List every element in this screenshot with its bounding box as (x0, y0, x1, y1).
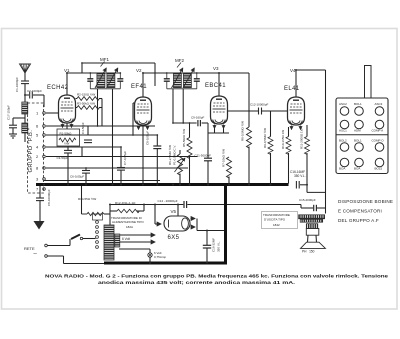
svg-text:C1-1000pF: C1-1000pF (15, 77, 19, 92)
svg-text:V5: V5 (171, 209, 177, 214)
svg-text:R2-150Ω ½W: R2-150Ω ½W (77, 93, 95, 97)
svg-text:C14 - 20000μF: C14 - 20000μF (158, 199, 178, 203)
svg-text:DISPOSIZIONE BOBINE: DISPOSIZIONE BOBINE (338, 199, 393, 204)
svg-text:EF41: EF41 (131, 84, 147, 90)
svg-text:BOL1: BOL1 (354, 139, 362, 143)
svg-text:6 Volt: 6 Volt (122, 237, 130, 241)
svg-text:C2-1000pF: C2-1000pF (27, 89, 42, 93)
svg-text:R3-50kΩ ½W: R3-50kΩ ½W (77, 102, 95, 106)
svg-text:350 V.L.: 350 V.L. (294, 174, 306, 178)
svg-text:R10-165Ω 1W: R10-165Ω 1W (281, 130, 285, 149)
svg-text:6X5: 6X5 (168, 235, 180, 241)
svg-text:C6-0,05μF: C6-0,05μF (70, 175, 84, 179)
svg-text:ASC1: ASC1 (339, 129, 347, 133)
svg-text:TRASFORMATORE: TRASFORMATORE (263, 213, 290, 217)
svg-text:R1-50kΩ: R1-50kΩ (60, 132, 73, 136)
svg-text:C11-5000pF: C11-5000pF (195, 154, 212, 158)
svg-text:C9-160pF: C9-160pF (191, 116, 205, 120)
svg-text:∼: ∼ (33, 251, 37, 257)
svg-text:D'USCITA TIPO: D'USCITA TIPO (264, 218, 286, 222)
svg-text:R12-40Ω+1-1Ω: R12-40Ω+1-1Ω (115, 201, 136, 205)
svg-text:E COMPENSATORI: E COMPENSATORI (338, 209, 382, 214)
svg-text:BOA: BOA (354, 167, 360, 171)
svg-text:V2: V2 (136, 68, 142, 73)
svg-text:COMP O: COMP O (372, 139, 385, 143)
svg-text:C16-32MF: C16-32MF (212, 238, 216, 252)
svg-text:C12-10000pF: C12-10000pF (250, 103, 269, 107)
svg-text:MF2: MF2 (175, 58, 184, 63)
svg-text:C8-10000pF: C8-10000pF (47, 189, 51, 206)
svg-text:C8-0,05μF: C8-0,05μF (146, 131, 150, 145)
svg-text:BOA: BOA (339, 167, 345, 171)
svg-text:ADM: ADM (354, 129, 361, 133)
svg-text:R5-50kΩ ½W: R5-50kΩ ½W (182, 129, 186, 147)
svg-text:ASC3: ASC3 (375, 102, 383, 106)
svg-text:GRUPPO "P.B.": GRUPPO "P.B." (28, 128, 34, 173)
svg-text:EL41: EL41 (284, 86, 300, 92)
svg-text:P1-0,5MΩ C.V.: P1-0,5MΩ C.V. (173, 145, 177, 165)
svg-text:EBC41: EBC41 (205, 83, 226, 89)
svg-text:anodica massima 435 volt; corr: anodica massima 435 volt; corrente anodi… (98, 280, 295, 286)
svg-text:COMP A: COMP A (372, 129, 384, 133)
svg-text:R14-55Ω ½W: R14-55Ω ½W (78, 197, 96, 201)
svg-text:V3: V3 (213, 66, 219, 71)
svg-text:BOL2: BOL2 (339, 139, 347, 143)
svg-text:½W: ½W (64, 142, 70, 146)
svg-text:R8-0,5MΩ ½W: R8-0,5MΩ ½W (241, 121, 245, 141)
svg-text:ECH42: ECH42 (47, 85, 69, 91)
svg-text:R9-0,5MΩ ½W: R9-0,5MΩ ½W (263, 128, 267, 148)
svg-text:V4: V4 (290, 68, 296, 73)
svg-text:NOVA RADIO - Mod. G 2 - Fu: NOVA RADIO - Mod. G 2 - Funziona con gru… (45, 274, 388, 280)
svg-text:C17-150pF: C17-150pF (7, 105, 11, 120)
svg-text:C3-50pF: C3-50pF (57, 156, 69, 160)
svg-text:R7-10kΩ ½W: R7-10kΩ ½W (222, 149, 226, 167)
svg-text:ASC2: ASC2 (339, 102, 347, 106)
svg-text:C4-50pF: C4-50pF (81, 122, 85, 134)
svg-text:PH 150: PH 150 (302, 250, 315, 254)
svg-text:C15-2000pF: C15-2000pF (299, 198, 316, 202)
svg-text:DEL GRUPPO A.F: DEL GRUPPO A.F (338, 218, 379, 223)
svg-text:R6-2,5MΩ ½W: R6-2,5MΩ ½W (168, 145, 172, 165)
svg-text:182A: 182A (126, 225, 133, 229)
svg-text:C7-0,05μF: C7-0,05μF (123, 151, 127, 165)
svg-text:350 V.L.: 350 V.L. (217, 241, 221, 252)
svg-text:R11-2000Ω 1W: R11-2000Ω 1W (300, 128, 304, 149)
svg-text:BOL5: BOL5 (375, 167, 383, 171)
svg-text:1842: 1842 (273, 223, 280, 227)
svg-text:ALIMENTAZIONE TIPO: ALIMENTAZIONE TIPO (112, 220, 144, 224)
svg-text:0,75Amp: 0,75Amp (154, 255, 166, 259)
svg-text:MF1: MF1 (100, 57, 109, 62)
svg-text:BOL1: BOL1 (354, 102, 362, 106)
